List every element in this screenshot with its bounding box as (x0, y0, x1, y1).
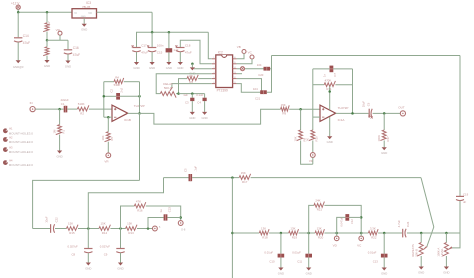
svg-text:GND: GND (306, 271, 312, 275)
mount hole H2 (3, 135, 33, 144)
op-amp IC1A (320, 105, 348, 122)
wire R13 to pad J5 (137, 228, 153, 230)
wire VC stem (237, 59, 252, 64)
wire cap bank rail (137, 32, 209, 47)
wire C12 path (337, 217, 346, 233)
junction +12V tee (17, 11, 20, 14)
svg-text:104: 104 (257, 63, 262, 67)
svg-text:VI: VI (74, 11, 77, 15)
wire R9 to IC1A (289, 108, 320, 110)
svg-text:C3: C3 (185, 100, 189, 104)
capacitor C9 (100, 244, 125, 256)
capacitor C10 (264, 250, 284, 263)
pad VC (357, 236, 363, 248)
ground under C15 bank (149, 62, 155, 70)
svg-text:0.01uF: 0.01uF (292, 250, 301, 254)
svg-text:0.027uF: 0.027uF (68, 244, 79, 248)
wire VB stem (237, 54, 244, 59)
junction feedback cap left (103, 95, 106, 98)
wire R3 to node VR (46, 32, 48, 41)
ground under C13 (381, 268, 387, 276)
svg-text:R4: R4 (115, 75, 119, 79)
svg-text:.1uF: .1uF (193, 166, 197, 172)
svg-text:C10: C10 (269, 260, 275, 264)
capacitor C21 (253, 87, 267, 101)
wire R11 right lead (335, 84, 352, 86)
wire IC1B feedback right (139, 82, 141, 114)
ground under R17 (381, 147, 387, 155)
resistor R6 (187, 74, 198, 84)
svg-text:GND: GND (327, 140, 333, 144)
svg-text:GND: GND (81, 28, 87, 32)
wire C11 to ground (308, 258, 310, 268)
svg-text:GND@3: GND@3 (13, 65, 24, 69)
capacitor C14 (14, 34, 30, 45)
junction VD node (335, 232, 338, 235)
potentiometer REPEATS 50K-B (411, 243, 427, 257)
svg-text:.022uF: .022uF (60, 98, 69, 102)
wire pot node to C3 C4 (179, 93, 205, 95)
supply +12V (11, 1, 20, 9)
wire R5 to VR pad (107, 142, 109, 153)
wire R17 to ground (383, 141, 385, 148)
svg-text:15K: 15K (101, 222, 106, 226)
wire R2 to opamp (89, 108, 112, 110)
svg-text:MOUNT-HOLE3.0: MOUNT-HOLE3.0 (9, 131, 34, 135)
junction pad O8 top (179, 216, 182, 219)
wire C21 right riser (267, 69, 272, 93)
wire R19 to R20 (299, 232, 316, 234)
wire IN to C1 (35, 108, 63, 110)
wire cap to R15 (55, 228, 67, 230)
svg-text:R21: R21 (317, 208, 323, 212)
svg-text:15K: 15K (127, 222, 132, 226)
wire C2fb left lead (104, 95, 116, 97)
svg-text:C20: C20 (258, 73, 264, 77)
wire C1 to R2 (67, 108, 77, 110)
svg-text:H4: H4 (9, 158, 13, 162)
wire VR pad to R8 node (312, 157, 314, 164)
wire IC2 pin14 lead (237, 68, 264, 70)
junction cap bank at C2 feed (168, 31, 171, 34)
junction +12V/R3 (46, 11, 49, 14)
wire R8 to VR node (301, 141, 313, 165)
wire IC2 pin2 to C18 top (180, 40, 212, 64)
ground under C8 (85, 263, 91, 271)
svg-text:1u: 1u (159, 209, 163, 213)
wire C23 path (148, 218, 164, 229)
pad VD (333, 236, 339, 248)
junction repeats top (420, 232, 423, 235)
pad OUT (398, 106, 405, 116)
capacitor C12 (340, 214, 354, 226)
svg-text:10K: 10K (294, 136, 298, 141)
svg-text:510K: 510K (114, 83, 121, 87)
wire R6 to pot right node (179, 79, 188, 94)
svg-text:R22: R22 (371, 235, 377, 239)
wire C17 to ground (136, 52, 138, 62)
capacitor C20 (257, 63, 270, 77)
wire C2 feed (168, 32, 170, 48)
resistor R18 (259, 226, 269, 239)
supply VB (237, 45, 246, 54)
ground under C16 (65, 61, 71, 69)
junction C10 top (280, 232, 283, 235)
ground under C18 (177, 62, 183, 70)
svg-text:TL072P: TL072P (338, 106, 349, 110)
svg-text:C22: C22 (54, 217, 58, 223)
wire R11 left lead (313, 84, 324, 86)
wire IC1A feedback top left (313, 68, 330, 70)
junction IC1B output (138, 112, 141, 115)
svg-text:C16: C16 (73, 46, 79, 50)
wire IC2 pin6 to delay wiper (172, 84, 212, 88)
ground under IC1A (327, 136, 333, 144)
wire IC3 ground pin (83, 18, 85, 24)
ground at IC2 pin2 net (189, 67, 195, 75)
wire R4A top lead (46, 40, 48, 47)
svg-text:GND: GND (418, 270, 424, 274)
wire C16 to ground (67, 54, 69, 60)
wire IC1A vminus stub (329, 117, 331, 136)
ground under IC3 (81, 24, 87, 32)
svg-text:C14: C14 (23, 34, 29, 38)
pad VR input bias (104, 153, 110, 163)
svg-text:C21: C21 (255, 97, 261, 101)
resistor R9 (281, 103, 290, 116)
svg-text:1K: 1K (306, 138, 310, 142)
svg-text:47uF: 47uF (23, 41, 30, 45)
svg-text:10K: 10K (101, 135, 105, 140)
resistor R13 (126, 222, 137, 235)
wire IC1A feedback right (352, 69, 354, 114)
capacitor C2 film (166, 48, 179, 53)
wire rail to IC2 pin1 (208, 32, 212, 59)
svg-text:GND: GND (65, 64, 71, 68)
svg-text:GND: GND (81, 16, 86, 18)
wire R8 vertical top (300, 109, 302, 130)
svg-text:R20: R20 (318, 235, 324, 239)
svg-text:100K: 100K (377, 135, 381, 142)
svg-text:0.1uF: 0.1uF (196, 93, 203, 97)
capacitor C15 bank (147, 44, 164, 55)
svg-text:C17: C17 (141, 44, 147, 48)
svg-text:10uF: 10uF (45, 216, 49, 223)
svg-text:O-8: O-8 (181, 227, 186, 231)
junction feedback at output (351, 112, 354, 115)
resistor R8 (294, 130, 307, 142)
junction cap bank at C15 feed (151, 31, 154, 34)
wire C3 top lead (191, 94, 193, 98)
wire C15 feed (151, 32, 153, 47)
wire C9 hang (120, 229, 122, 249)
svg-text:0.047uF: 0.047uF (340, 217, 344, 227)
svg-text:1uF: 1uF (183, 93, 188, 97)
svg-text:MOUNT-HOLE3.0: MOUNT-HOLE3.0 (9, 150, 34, 154)
ground under C9 (117, 263, 123, 271)
svg-text:R9: R9 (282, 112, 286, 116)
wire +12V rail to regulator (18, 11, 72, 13)
wire C11 hang (308, 233, 310, 254)
resistor R2 (77, 102, 89, 116)
wire IC1B minus input (104, 116, 112, 118)
svg-text:C24: C24 (406, 221, 410, 227)
junction row right start (231, 232, 234, 235)
svg-text:C7: C7 (333, 73, 337, 77)
svg-text:GND: GND (117, 266, 123, 270)
wire R21 to right riser (324, 205, 361, 233)
svg-text:VO: VO (88, 11, 92, 15)
junction VR divider (46, 39, 49, 42)
wire R1 to ground (59, 135, 61, 151)
svg-text:C13: C13 (373, 260, 379, 264)
pad O8 (178, 221, 186, 232)
svg-text:47K: 47K (136, 199, 141, 203)
supply VR (56, 28, 62, 35)
resistor R21 (314, 199, 325, 212)
resistor R1 (53, 125, 66, 135)
junction C3 top (191, 92, 194, 95)
wire +12V stem (17, 9, 19, 12)
wire IC1B output (128, 109, 281, 124)
svg-text:REPEATS: REPEATS (411, 244, 415, 257)
resistor R17 bus (239, 171, 250, 184)
junction R16 bottom (119, 227, 122, 230)
capacitor C23 (159, 207, 172, 221)
wire output bus down (139, 113, 141, 180)
svg-text:GND: GND (381, 151, 387, 155)
IC IC2 PT2399 body (216, 51, 233, 93)
ground under R1 (56, 151, 62, 159)
junction C13 top (383, 232, 386, 235)
svg-text:1M: 1M (53, 129, 57, 134)
svg-text:GND: GND (166, 66, 172, 70)
svg-text:GND: GND (85, 266, 91, 270)
svg-text:R2: R2 (80, 111, 84, 115)
svg-text:IC2: IC2 (218, 51, 223, 55)
svg-text:IC1B: IC1B (124, 118, 131, 122)
junction bottom branch (231, 176, 234, 179)
resistor R19 (289, 226, 299, 239)
svg-text:GND: GND (201, 116, 207, 120)
svg-text:MOUNT-HOLE3.0: MOUNT-HOLE3.0 (9, 140, 34, 144)
capacitor C16 (64, 46, 80, 57)
svg-text:78L05: 78L05 (82, 5, 91, 9)
svg-text:H2: H2 (9, 135, 13, 139)
ground GND@3 (13, 60, 24, 69)
svg-text:10uF: 10uF (362, 101, 366, 108)
wire R16 to pad O8 (146, 206, 181, 221)
resistor R3 (43, 21, 51, 32)
wire C15 to ground (151, 52, 153, 62)
svg-text:R15: R15 (69, 231, 75, 235)
mount hole H1 (3, 127, 33, 136)
svg-text:0.027uF: 0.027uF (100, 244, 111, 248)
junction pin2 gnd stub (191, 63, 194, 66)
junction level top (445, 232, 448, 235)
svg-text:47uF: 47uF (185, 51, 192, 55)
capacitor C8 (68, 244, 93, 256)
svg-text:C19: C19 (463, 192, 469, 196)
svg-text:C8: C8 (72, 252, 76, 256)
svg-text:0.01uF: 0.01uF (368, 250, 377, 254)
wire C9 to ground (120, 253, 122, 263)
wire +V rail right (272, 55, 461, 57)
junction C12 right (360, 216, 363, 219)
wire R21 riser (309, 205, 314, 233)
svg-text:R19: R19 (292, 235, 298, 239)
wire right row (232, 232, 259, 234)
supply VC (248, 50, 254, 59)
resistor R4A lower divider (43, 47, 49, 56)
wire right rail drop (459, 56, 461, 197)
svg-text:H3: H3 (9, 145, 13, 149)
svg-text:+12 V: +12 V (11, 1, 20, 5)
resistor R14 (99, 222, 110, 235)
junction R17 top (383, 112, 386, 115)
wire VC stem (360, 233, 362, 236)
potentiometer DELAY 50K-B (160, 82, 176, 98)
potentiometer LEVEL 100K-A (436, 243, 452, 257)
junction node2 bottom (87, 227, 90, 230)
svg-text:0.01uF: 0.01uF (264, 250, 273, 254)
wire IC1A feedback top right (333, 68, 352, 70)
svg-text:R13: R13 (128, 231, 134, 235)
wire diagonal to repeats wiper (421, 178, 434, 247)
svg-text:4K7: 4K7 (47, 21, 51, 27)
svg-text:C1: C1 (61, 102, 65, 106)
resistor R11 (324, 79, 335, 92)
junction VC node (360, 232, 363, 235)
wire R1 top lead (59, 109, 61, 125)
wire R3 top lead (46, 12, 48, 22)
IC2 left pin stubs (212, 57, 216, 84)
svg-text:4.7uF: 4.7uF (397, 220, 401, 227)
resistor R10 (306, 130, 319, 142)
svg-text:MOUNT-HOLE3.0: MOUNT-HOLE3.0 (9, 163, 34, 167)
wire repeats top lead (420, 233, 422, 243)
ground under C3 (189, 112, 195, 120)
mount hole H3 (3, 145, 33, 154)
wire C4 to ground (204, 101, 206, 112)
wire C10 to ground (280, 258, 282, 268)
wire C18 to ground (179, 52, 181, 62)
wire node2 riser (88, 178, 163, 229)
svg-text:C6: C6 (366, 102, 370, 106)
wire C8 hang (87, 229, 89, 249)
svg-text:C9: C9 (104, 252, 108, 256)
wire mid bus left (164, 177, 189, 179)
svg-text:13K: 13K (261, 226, 266, 230)
svg-text:C18: C18 (185, 44, 191, 48)
wire R22 to C15 (378, 232, 402, 234)
capacitor C4 (196, 93, 207, 104)
svg-text:OUT: OUT (398, 106, 405, 110)
capacitor C2 feedback (110, 87, 124, 99)
wire R10 top lead (312, 117, 314, 130)
wire R16 net (121, 206, 135, 229)
svg-text:H1: H1 (9, 127, 13, 131)
svg-text:IC1A: IC1A (338, 118, 346, 122)
wire C12 to junction (349, 216, 361, 218)
svg-text:IN: IN (30, 101, 33, 105)
wire R15 to R14 (78, 228, 99, 230)
wire IC2 pin11 to C21 (237, 84, 261, 93)
junction C21 left (260, 91, 263, 94)
wire C19 to level wiper (452, 201, 460, 248)
voltage regulator IC3 78L05 (72, 1, 97, 18)
wire IC1A feedback left (312, 69, 314, 117)
svg-text:GND: GND (278, 271, 284, 275)
wire C2 to ground (168, 52, 170, 62)
svg-text:R18: R18 (262, 235, 268, 239)
wire output bus left (33, 180, 140, 228)
svg-text:15K: 15K (281, 103, 286, 107)
capacitor C18 (175, 44, 192, 55)
svg-text:C23: C23 (168, 207, 172, 213)
svg-text:50K-B: 50K-B (164, 86, 172, 90)
pad VR output bias (309, 153, 315, 163)
wire IC1B feedback left (103, 82, 105, 118)
svg-text:uF: uF (463, 200, 467, 204)
ground under C10 (278, 268, 284, 276)
wire +12V down to C14 (17, 12, 19, 37)
wire level to ground (445, 256, 447, 267)
wire level top lead (445, 233, 447, 243)
wire C2fb right lead (120, 95, 140, 97)
wire IC1A output (336, 112, 369, 114)
capacitor C3 (183, 93, 194, 104)
ground under R4A (44, 60, 50, 68)
capacitor C13 (368, 250, 388, 263)
pad inline on pin14 net (241, 67, 245, 71)
wire R10 to VR pad (312, 141, 314, 153)
svg-text:100n: 100n (157, 44, 164, 48)
svg-text:VB: VB (237, 45, 241, 49)
junction R8 top (299, 108, 302, 111)
svg-text:GND: GND (177, 66, 183, 70)
wire regulator output rail (97, 11, 153, 13)
svg-text:3.3K: 3.3K (370, 226, 376, 230)
svg-text:10K: 10K (188, 74, 193, 78)
svg-text:R17: R17 (242, 180, 248, 184)
wire VR stem (59, 35, 61, 40)
resistor R16 (134, 199, 145, 212)
wire delay pot right lead (176, 93, 178, 95)
ground under C4 (201, 112, 207, 120)
svg-text:15K: 15K (241, 171, 246, 175)
svg-text:104: 104 (253, 87, 258, 91)
wire C10 hang (280, 233, 282, 254)
wire IC1A vplus stub (329, 87, 331, 110)
svg-text:C11: C11 (297, 260, 302, 264)
svg-text:R17: R17 (386, 136, 390, 142)
wire VD stem (336, 233, 338, 236)
ground under REPEATS (418, 267, 424, 275)
svg-text:PT2399: PT2399 (217, 88, 228, 92)
resistor R20 (315, 226, 324, 239)
svg-text:R1: R1 (62, 129, 66, 133)
wire row left to cap (33, 228, 51, 230)
resistor R4 (114, 75, 124, 87)
ground under C11 (306, 268, 312, 276)
capacitor C7 (322, 66, 336, 77)
svg-text:GND: GND (189, 116, 195, 120)
resistor R5 (101, 132, 114, 142)
svg-text:2n2: 2n2 (120, 87, 124, 92)
svg-text:R14: R14 (102, 231, 108, 235)
svg-text:C2: C2 (110, 89, 114, 93)
